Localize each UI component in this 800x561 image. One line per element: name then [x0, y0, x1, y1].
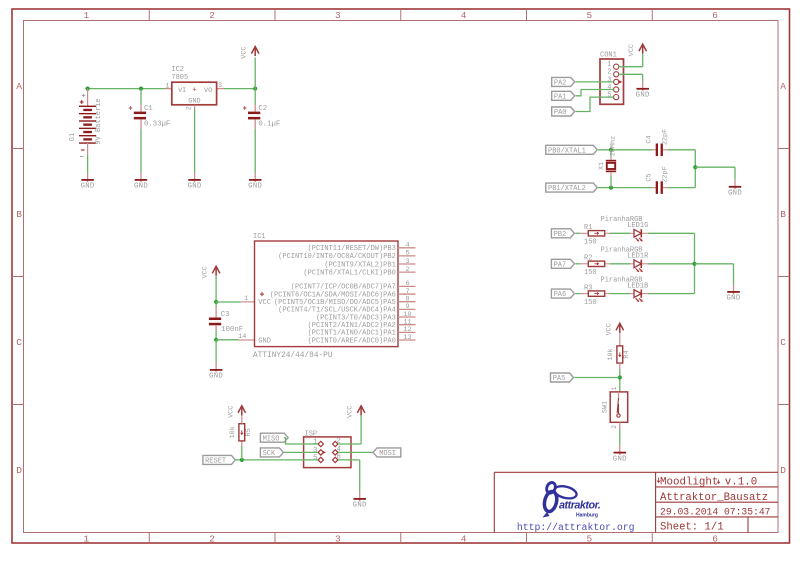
svg-text:3: 3: [218, 82, 222, 90]
svg-text:VCC: VCC: [347, 406, 355, 418]
svg-text:22pF: 22pF: [661, 129, 669, 145]
svg-text:VCC: VCC: [241, 46, 249, 58]
svg-text:LED1R: LED1R: [627, 253, 649, 261]
svg-text:IC1: IC1: [253, 233, 266, 241]
svg-text:C: C: [16, 337, 22, 348]
svg-text:attraktor.: attraktor.: [559, 500, 601, 512]
svg-text:3: 3: [405, 258, 409, 266]
svg-text:Hamburg: Hamburg: [576, 513, 598, 519]
svg-text:LED1G: LED1G: [627, 222, 648, 230]
svg-text:GND: GND: [248, 183, 262, 191]
svg-text:A: A: [780, 81, 786, 92]
svg-text:2: 2: [405, 266, 409, 274]
svg-text:VCC: VCC: [628, 44, 636, 56]
svg-text:PA2: PA2: [554, 80, 567, 88]
svg-text:PA1: PA1: [554, 93, 567, 101]
svg-text:3: 3: [335, 534, 341, 545]
svg-text:GND: GND: [188, 183, 202, 191]
svg-text:13: 13: [403, 334, 411, 342]
svg-text:VCC: VCC: [258, 299, 271, 307]
svg-text:22pF: 22pF: [661, 166, 669, 182]
svg-text:1: 1: [611, 387, 618, 391]
svg-text:0.1µF: 0.1µF: [258, 120, 280, 128]
svg-text:A: A: [16, 81, 22, 92]
svg-text:PA7: PA7: [554, 261, 567, 269]
svg-text:PB2: PB2: [554, 231, 567, 239]
svg-text:0.33µF: 0.33µF: [144, 120, 170, 128]
svg-text:C2: C2: [258, 105, 267, 113]
svg-text:B: B: [16, 209, 22, 220]
svg-text:10k: 10k: [229, 426, 237, 438]
svg-text:MOSI: MOSI: [379, 450, 396, 458]
svg-text:VCC: VCC: [202, 266, 210, 278]
svg-text:PB1/XTAL2: PB1/XTAL2: [548, 185, 586, 193]
svg-text:10k: 10k: [607, 348, 615, 360]
svg-text:1: 1: [244, 295, 248, 303]
svg-text:Sheet: 1/1: Sheet: 1/1: [660, 522, 724, 534]
svg-text:C1: C1: [144, 105, 153, 113]
svg-text:PA5: PA5: [553, 375, 566, 383]
svg-text:SCK: SCK: [263, 450, 276, 458]
svg-text:+: +: [192, 87, 196, 95]
svg-text:C: C: [780, 337, 786, 348]
svg-text:CON1: CON1: [600, 52, 617, 60]
svg-text:VCC: VCC: [227, 406, 235, 418]
svg-text:2: 2: [185, 106, 193, 110]
svg-text:MISO: MISO: [263, 435, 280, 443]
svg-text:R5: R5: [245, 428, 253, 436]
svg-text:GND: GND: [613, 455, 627, 463]
svg-text:GND: GND: [728, 190, 742, 198]
svg-text:X1: X1: [598, 162, 606, 170]
svg-text:R4: R4: [623, 350, 631, 358]
svg-text:(PCINT8/XTAL1/CLKI)PB0: (PCINT8/XTAL1/CLKI)PB0: [303, 269, 395, 277]
svg-text:2: 2: [611, 425, 618, 429]
svg-text:ATTINY24/44/84-PU: ATTINY24/44/84-PU: [253, 352, 333, 360]
svg-text:D: D: [16, 465, 22, 476]
svg-text:6: 6: [712, 534, 718, 545]
svg-text:6: 6: [712, 10, 718, 21]
svg-text:R3: R3: [584, 284, 592, 292]
svg-text:GND: GND: [726, 295, 740, 303]
svg-text:4: 4: [461, 534, 467, 545]
svg-text:4: 4: [461, 10, 467, 21]
svg-text:PA0: PA0: [554, 109, 567, 117]
svg-text:100nF: 100nF: [221, 326, 243, 334]
svg-text:C3: C3: [221, 311, 230, 319]
svg-text:(PCINT11/RESET/DW)PB3: (PCINT11/RESET/DW)PB3: [308, 245, 396, 253]
svg-text:150: 150: [584, 269, 597, 277]
svg-text:GND: GND: [353, 502, 367, 510]
svg-text:GND: GND: [258, 337, 271, 345]
svg-text:29.03.2014 07:35:47: 29.03.2014 07:35:47: [660, 506, 771, 517]
svg-text:(PCINT9/XTAL2)PB1: (PCINT9/XTAL2)PB1: [324, 261, 395, 269]
svg-text:5: 5: [587, 534, 593, 545]
svg-text:http://attraktor.org: http://attraktor.org: [517, 522, 635, 533]
svg-text:GND: GND: [636, 92, 650, 100]
svg-text:3: 3: [335, 10, 341, 21]
svg-text:VO: VO: [204, 87, 212, 95]
svg-text:5: 5: [587, 10, 593, 21]
svg-text:2: 2: [209, 10, 215, 21]
svg-text:Attraktor_Bausatz: Attraktor_Bausatz: [660, 492, 768, 504]
svg-text:5: 5: [405, 250, 409, 258]
svg-text:RESET: RESET: [205, 458, 226, 466]
svg-text:150: 150: [584, 299, 597, 307]
svg-text:5: 5: [313, 455, 317, 463]
svg-text:C4: C4: [645, 135, 653, 143]
svg-text:VI: VI: [178, 87, 186, 95]
svg-text:GND: GND: [188, 98, 200, 106]
svg-text:C5: C5: [645, 173, 653, 181]
svg-text:GND: GND: [134, 183, 148, 191]
svg-text:GND: GND: [81, 183, 95, 191]
svg-text:GND: GND: [209, 373, 223, 381]
svg-text:G1: G1: [69, 133, 77, 141]
svg-text:4: 4: [405, 242, 409, 250]
svg-text:R2: R2: [584, 255, 592, 263]
svg-text:D: D: [780, 465, 786, 476]
svg-text:VCC: VCC: [605, 323, 613, 335]
svg-text:1: 1: [84, 10, 90, 21]
svg-text:9V Batterie: 9V Batterie: [95, 98, 103, 144]
svg-text:SW1: SW1: [602, 401, 610, 413]
svg-text:20Mhz: 20Mhz: [610, 136, 618, 156]
svg-text:2: 2: [209, 534, 215, 545]
svg-text:B: B: [780, 209, 786, 220]
svg-text:PA6: PA6: [554, 291, 567, 299]
svg-text:(PCINT10/INT0/OC0A/CKOUT)PB2: (PCINT10/INT0/OC0A/CKOUT)PB2: [278, 253, 396, 261]
svg-text:(PCINT0/AREF/ADC0)PA0: (PCINT0/AREF/ADC0)PA0: [308, 337, 396, 345]
svg-text:150: 150: [584, 239, 597, 247]
svg-text:5: 5: [607, 92, 611, 100]
svg-text:1: 1: [165, 82, 169, 90]
svg-text:PB0/XTAL1: PB0/XTAL1: [548, 147, 586, 155]
svg-text:1: 1: [84, 534, 90, 545]
svg-text:7805: 7805: [171, 74, 188, 82]
svg-text:R1: R1: [584, 224, 592, 232]
svg-text:1: 1: [313, 439, 317, 447]
svg-text:Moodlight v.1.0: Moodlight v.1.0: [660, 476, 757, 488]
svg-text:LED1B: LED1B: [627, 282, 648, 290]
